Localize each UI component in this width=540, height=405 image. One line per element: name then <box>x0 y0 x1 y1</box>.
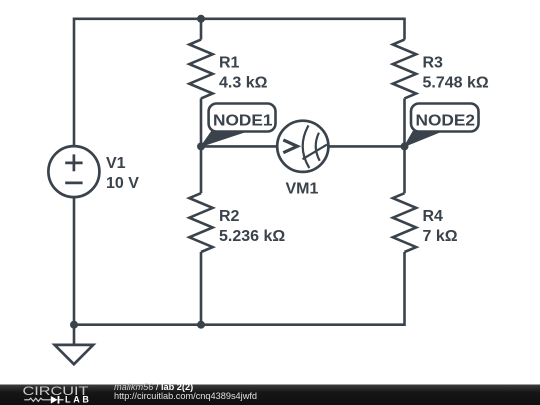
svg-text:VM1: VM1 <box>286 181 319 198</box>
wire left vertical upper (top corner to V1 top) <box>74 19 201 146</box>
svg-text:NODE1: NODE1 <box>213 112 273 129</box>
svg-text:7 kΩ: 7 kΩ <box>423 228 458 245</box>
wire middle vertical top stub <box>200 19 203 40</box>
resistor R3 <box>393 40 489 99</box>
wire mid horizontal left (NODE1 to voltmeter) <box>201 145 277 148</box>
svg-text:V1: V1 <box>106 155 126 172</box>
junction dot NODE2 <box>401 142 409 150</box>
wire top horizontal from V1 branch to R3 branch <box>201 19 405 40</box>
junction dot bottom middle <box>197 321 205 329</box>
svg-text:R1: R1 <box>219 55 240 72</box>
resistor R4 <box>393 193 458 252</box>
wire right vertical (R3 bottom to NODE2) <box>403 98 406 146</box>
node NODE2 callout <box>405 104 479 147</box>
svg-text:4.3 kΩ: 4.3 kΩ <box>219 75 268 92</box>
junction dot top middle <box>197 15 205 23</box>
svg-text:5.236 kΩ: 5.236 kΩ <box>219 228 285 245</box>
resistor R2 <box>189 193 285 252</box>
svg-text:http://circuitlab.com/cnq4389s: http://circuitlab.com/cnq4389s4jwfd <box>114 391 257 401</box>
svg-text:R4: R4 <box>423 208 444 225</box>
svg-text:R3: R3 <box>423 55 444 72</box>
voltage source V1 <box>48 146 139 197</box>
svg-text:NODE2: NODE2 <box>416 112 476 129</box>
CircuitLab logo wordmark <box>23 386 92 405</box>
svg-text:5.748 kΩ: 5.748 kΩ <box>423 75 489 92</box>
junction dot NODE1 <box>197 142 205 150</box>
wire middle vertical (R1 bottom to NODE1) <box>200 98 203 146</box>
svg-text:10 V: 10 V <box>106 175 139 192</box>
junction dot bottom left <box>70 321 78 329</box>
svg-text:LAB: LAB <box>65 395 92 405</box>
wire ground stub <box>73 325 76 345</box>
footer title text <box>114 382 257 401</box>
voltmeter VM1 <box>277 121 328 198</box>
wire middle vertical (NODE1 to R2) <box>200 146 203 193</box>
wire mid horizontal right (voltmeter to NODE2) <box>328 145 404 148</box>
footer bar <box>0 385 540 405</box>
node NODE1 callout <box>201 104 276 147</box>
wire right vertical (NODE2 to R4) <box>403 146 406 193</box>
resistor R1 <box>189 40 267 99</box>
wire bottom horizontal <box>74 252 405 325</box>
wire middle vertical (R2 to bottom wire) <box>200 252 203 325</box>
ground <box>55 345 94 364</box>
wire left vertical lower (V1 bottom to bottom wire) <box>73 197 76 325</box>
svg-text:R2: R2 <box>219 208 240 225</box>
